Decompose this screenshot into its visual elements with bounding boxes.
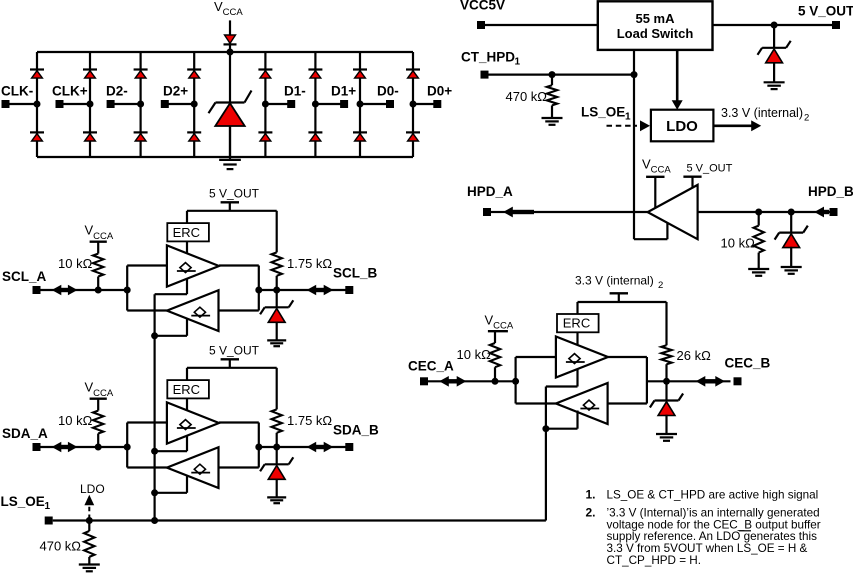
node CEC rail junction — [512, 378, 519, 385]
label HPD_B — [808, 184, 853, 199]
wire SCL_B net — [259, 289, 347, 291]
wire D0+ pin stub — [413, 103, 437, 105]
arrow SCL_A bidirectional — [52, 285, 78, 296]
wire ERC to buffer (SDA) — [186, 398, 188, 410]
svg-text:LS_OE: LS_OE — [581, 105, 625, 120]
label 5 V_OUT (SDA) — [209, 344, 260, 358]
pin LS_OE — [45, 517, 53, 525]
label 5 V_OUT (HPD) — [687, 163, 733, 175]
svg-text:1.75 kΩ: 1.75 kΩ — [287, 256, 332, 271]
supply bar V_CCA (CEC) — [488, 330, 508, 332]
label CEC_A — [408, 359, 454, 374]
ground (ESD array) — [219, 157, 241, 169]
svg-text:10 kΩ: 10 kΩ — [58, 413, 93, 428]
label 10 kOhm (HPD_B) — [721, 236, 756, 251]
diode D_CLK+_bot (ESD to ground rail) — [83, 132, 97, 141]
op-amp SCL A-to-B buffer — [167, 245, 219, 286]
label 5 V_OUT (SCL) — [209, 187, 260, 201]
arrow SDA_A bidirectional — [52, 442, 78, 453]
svg-text:5 V_OUT: 5 V_OUT — [687, 163, 733, 175]
block ERC (SCL) — [167, 223, 209, 241]
label D0- — [377, 84, 399, 99]
wire LDO output arrow 3.3V — [713, 120, 761, 131]
wire HPD_A lead — [491, 211, 506, 213]
wire SDA bottom buffer output — [127, 466, 167, 468]
svg-text:3.3 V (internal): 3.3 V (internal) — [721, 106, 803, 120]
diode D_D0-_bot (ESD to ground rail) — [353, 132, 367, 141]
label 3.3 V (internal)2 (LDO out) — [721, 106, 809, 124]
op-amp CEC A-to-B buffer — [556, 337, 608, 378]
node LS_OE LDO junction — [86, 517, 93, 524]
label V_CCA (SDA) — [85, 380, 114, 399]
pin SDA_A — [33, 443, 41, 451]
svg-text:1: 1 — [625, 112, 631, 123]
zener D_5VOUT clamp — [758, 41, 791, 63]
wire 5V_OUT zener stub — [773, 25, 775, 48]
diode D_D2-_bot (ESD to ground rail) — [134, 132, 148, 141]
svg-text:HPD_A: HPD_A — [467, 184, 513, 199]
svg-text:10 kΩ: 10 kΩ — [457, 347, 492, 362]
zener D_SDAB clamp — [260, 457, 293, 479]
svg-text:SCL_B: SCL_B — [333, 266, 378, 281]
label CT_HPD1 — [461, 50, 521, 68]
pin SDA_B — [345, 443, 353, 451]
label 10 kOhm (CEC) — [457, 347, 492, 362]
resistor R_CECA 10 kOhm — [490, 331, 500, 381]
pin CEC_A — [420, 377, 428, 385]
wire SDA bottom enable stub — [155, 475, 187, 493]
node D0- junction — [357, 101, 364, 108]
node D1+ junction — [312, 101, 319, 108]
svg-text:SDA_A: SDA_A — [2, 426, 48, 441]
svg-text:Load Switch: Load Switch — [617, 26, 694, 41]
zener D_SCLB clamp — [260, 300, 293, 322]
wire SCL bottom enable stub — [155, 318, 187, 336]
svg-text:CEC_A: CEC_A — [408, 359, 454, 374]
pin CEC_B — [734, 377, 742, 385]
wire HPD_B zener to ground — [790, 247, 792, 267]
svg-text:1.75 kΩ: 1.75 kΩ — [287, 413, 332, 428]
node D0+ junction — [410, 101, 417, 108]
diode D_D1-_bot (ESD to ground rail) — [258, 132, 272, 141]
label LDO (dashed arrow) — [80, 482, 105, 496]
wire center TVS column — [229, 52, 231, 157]
node load-switch enable junction — [631, 71, 638, 78]
wire 5 V_OUT supply stub (SCL) — [229, 202, 231, 211]
wire SDA_B net — [259, 446, 347, 448]
ground (CEC_B zener) — [656, 434, 677, 441]
node LS_OE enable junction — [151, 517, 158, 524]
svg-text:2.: 2. — [586, 506, 596, 520]
diode D_D1+_bot (ESD to ground rail) — [308, 132, 322, 141]
wire HPD enable L-path — [634, 223, 667, 239]
wire zener to ground — [773, 62, 775, 82]
wire ESD array top rail — [37, 51, 413, 53]
wire D2- pin stub — [111, 103, 141, 105]
wire ESD column D1- — [264, 52, 266, 157]
svg-text:5 V_OUT: 5 V_OUT — [209, 344, 260, 358]
label 470 kOhm (LS_OE) — [40, 539, 82, 554]
node D2+ junction — [191, 101, 198, 108]
svg-text:SCL_A: SCL_A — [2, 269, 47, 284]
zener D_CECB clamp — [650, 394, 683, 416]
resistor R_SCLA 10 kOhm — [93, 242, 103, 290]
op-amp U3 HPD buffer (points left) — [648, 185, 698, 239]
svg-text:LDO: LDO — [666, 118, 698, 135]
wire load switch bottom to HPD enable — [633, 50, 635, 239]
note 2 — [586, 506, 821, 567]
svg-text:CEC_B: CEC_B — [725, 356, 771, 371]
svg-text:10 kΩ: 10 kΩ — [58, 256, 93, 271]
pin D0- — [386, 100, 394, 108]
pin SCL_A — [33, 286, 41, 294]
svg-text:D2-: D2- — [106, 84, 128, 99]
svg-text:2: 2 — [804, 113, 809, 124]
node HPD_B 10k junction — [755, 209, 762, 216]
node SDA pull-up junction — [95, 444, 102, 451]
arrow SDA_B bidirectional — [307, 442, 334, 453]
resistor R_SDAA 10 kOhm — [93, 399, 103, 447]
resistor R_SCLB 1.75 k&#937; — [272, 252, 282, 290]
supply bar V_CCA (HPD) — [646, 176, 664, 178]
wire SCL left rail — [126, 266, 128, 311]
diode D_D2+_top (ESD to rail) — [187, 70, 201, 79]
resistor R_SDAB 1.75 k&#937; — [272, 409, 282, 447]
supply bar 5 V_OUT (SDA) — [221, 358, 239, 360]
wire SDA top enable stub — [155, 436, 187, 452]
node CT_HPD 470k junction — [549, 71, 556, 78]
label D1+ — [331, 84, 356, 99]
wire CEC top buffer output — [608, 356, 647, 358]
pin CLK- — [2, 100, 10, 108]
label HPD_A — [467, 184, 513, 199]
wire CEC top buffer input — [516, 356, 556, 358]
wire SDA_B zener stub — [276, 447, 278, 464]
op-amp SDA A-to-B buffer — [167, 402, 219, 443]
svg-text:2: 2 — [658, 280, 663, 291]
wire CEC enable line — [545, 387, 547, 521]
diode D_D2-_top (ESD to rail) — [134, 70, 148, 79]
label 26 kOhm — [677, 348, 712, 363]
label CLK+ — [52, 84, 88, 99]
resistor R_HPDB 10 kOhm — [754, 212, 764, 269]
wire SDA_A net — [41, 446, 128, 448]
wire D2+ pin stub — [165, 103, 194, 105]
TVS zener D_clamp (center) — [209, 91, 252, 158]
node SDA top enable junction — [151, 448, 158, 455]
wire CLK+ pin stub — [60, 103, 91, 105]
wire CEC left rail — [514, 357, 516, 404]
label V_CCA (array top) — [214, 0, 243, 18]
node D2- junction — [137, 101, 144, 108]
pin D1- — [287, 100, 295, 108]
svg-text:SDA_B: SDA_B — [333, 423, 379, 438]
wire V_CCA stub — [229, 20, 231, 52]
label 470 kOhm (CT_HPD) — [506, 89, 548, 104]
diode D_CLK-_top (ESD to rail) — [30, 70, 44, 79]
wire ERC supply stub (SDA) — [186, 368, 188, 380]
svg-text:CLK-: CLK- — [1, 84, 33, 99]
node D1- junction — [262, 101, 269, 108]
label 1.75 k&#937; (SCL) — [287, 256, 332, 271]
node CEC bottom enable junction — [542, 425, 549, 432]
label D0+ — [427, 84, 452, 99]
svg-text:D0-: D0- — [377, 84, 399, 99]
wire ERC to buffer (CEC) — [576, 332, 578, 345]
wire LS_OE net — [53, 519, 546, 521]
pin D2- — [107, 100, 115, 108]
wire V_CCA to HPD buffer — [654, 177, 656, 208]
supply bar V_CCA (SCL) — [90, 240, 107, 242]
op-amp CEC B-to-A buffer — [556, 383, 608, 424]
arrow HPD_A output (left) — [503, 207, 534, 218]
node CEC pull-up junction — [492, 378, 499, 385]
svg-text:ERC: ERC — [173, 225, 200, 240]
op-amp SDA B-to-A buffer — [167, 447, 219, 488]
zener D_HPDB clamp — [775, 226, 808, 248]
svg-text:ERC: ERC — [563, 316, 590, 331]
pin HPD_A — [483, 208, 491, 216]
supply bar 3.3V (CEC) — [610, 292, 628, 294]
svg-text:55 mA: 55 mA — [635, 11, 675, 26]
wire ESD column CLK+ — [89, 52, 91, 157]
svg-text:LS_OE & CT_HPD are active high: LS_OE & CT_HPD are active high signal — [607, 489, 819, 502]
node 5V_OUT zener junction — [771, 22, 778, 29]
ground (SCL_B zener) — [267, 340, 286, 346]
wire D1- pin stub — [265, 103, 291, 105]
wire SDA output rail — [258, 423, 260, 468]
wire CEC bottom buffer output — [516, 402, 556, 404]
label LS_OE1 (bottom) — [1, 494, 51, 512]
svg-text:1.: 1. — [586, 488, 596, 502]
label LS_OE1 (top) — [581, 105, 631, 123]
label 10 kOhm (SCL) — [58, 256, 93, 271]
diode D_D1-_top (ESD to rail) — [258, 70, 272, 79]
label V_CCA (CEC) — [485, 313, 514, 332]
label 10 kOhm (SDA) — [58, 413, 93, 428]
svg-text:5 V_OUT: 5 V_OUT — [209, 187, 260, 201]
block ERC (SDA) — [167, 380, 209, 398]
ground (SDA_B zener) — [267, 497, 286, 503]
label 5 V_OUT (pin) — [798, 4, 853, 19]
wire CLK- pin stub — [6, 103, 38, 105]
svg-text:CCA: CCA — [93, 388, 114, 399]
svg-text:CCA: CCA — [223, 7, 244, 18]
wire SCL supply rail — [187, 210, 277, 212]
label SDA_B — [333, 423, 379, 438]
label 1.75 k&#937; (SDA) — [287, 413, 332, 428]
diode D_D2+_bot (ESD to ground rail) — [187, 132, 201, 141]
svg-text:D1+: D1+ — [331, 84, 356, 99]
wire ERC supply stub (SCL) — [186, 211, 188, 223]
wire SCL_B zener to ground — [276, 322, 278, 341]
arrow SCL_B bidirectional — [307, 285, 334, 296]
diode D_CLK-_bot (ESD to ground rail) — [30, 132, 44, 141]
label VCC5V — [460, 0, 505, 13]
wire ERC supply stub (CEC) — [576, 302, 578, 314]
node SCL_B pull-up junction — [273, 287, 280, 294]
wire CEC_B zener to ground — [665, 415, 667, 434]
wire D1+ pin stub — [315, 103, 344, 105]
label 3.3 V (internal)2 (CEC) — [575, 274, 663, 292]
diode D_D0-_top (ESD to rail) — [353, 70, 367, 79]
wire LS_OE dashed enable arrow — [607, 120, 651, 131]
wire SCL output rail — [258, 266, 260, 311]
wire CEC_B zener stub — [665, 381, 667, 400]
svg-text:1: 1 — [515, 57, 521, 68]
node CEC_B pull-up junction — [663, 378, 670, 385]
svg-text:5 V_OUT: 5 V_OUT — [798, 4, 853, 19]
node SDA bottom enable junction — [151, 489, 158, 496]
wire HPD_B input — [698, 211, 830, 213]
svg-text:3.3 V (internal): 3.3 V (internal) — [575, 274, 654, 288]
label V_CCA (HPD) — [642, 157, 671, 176]
wire HPD buffer output — [532, 211, 648, 213]
ground (HPD_B resistor) — [748, 269, 769, 276]
ground (5V_OUT zener) — [764, 82, 785, 89]
wire ESD array bottom rail — [37, 156, 413, 158]
node SCL pull-up junction — [95, 287, 102, 294]
node CLK- junction — [34, 101, 41, 108]
pin HPD_B — [830, 208, 838, 216]
svg-text:CT_CP_HPD = H.: CT_CP_HPD = H. — [607, 554, 702, 567]
wire SCL top buffer output — [219, 264, 259, 266]
label CLK- — [1, 84, 33, 99]
svg-text:ERC: ERC — [173, 382, 200, 397]
wire SCL/SDA enable line — [154, 294, 156, 520]
svg-text:CCA: CCA — [651, 165, 672, 176]
supply bar 5 V_OUT (SCL) — [221, 201, 239, 203]
note 1 — [586, 488, 819, 502]
block U1 55 mA Load Switch — [598, 1, 713, 50]
wire SDA bottom buffer input — [219, 466, 259, 468]
svg-text:26 kΩ: 26 kΩ — [677, 348, 712, 363]
svg-text:CLK+: CLK+ — [52, 84, 88, 99]
wire CEC_A net — [428, 380, 516, 382]
wire ESD column D2- — [140, 52, 142, 157]
svg-text:LS_OE: LS_OE — [1, 494, 45, 509]
wire CEC pull-up rail — [665, 302, 667, 345]
wire D0- pin stub — [360, 103, 390, 105]
pin 5 V_OUT — [832, 21, 840, 29]
wire SDA pull-up rail — [276, 368, 278, 410]
wire ESD column D0+ — [412, 52, 414, 157]
op-amp SCL B-to-A buffer — [167, 290, 219, 331]
svg-text:10 kΩ: 10 kΩ — [721, 236, 756, 251]
wire CEC output rail — [646, 357, 648, 404]
resistor R_CTHPD 470 kOhm — [547, 75, 557, 118]
wire VCC5V to load switch — [485, 24, 598, 26]
wire load switch output to 5 V_OUT — [713, 24, 833, 26]
supply bar V_CCA (SDA) — [90, 398, 107, 400]
svg-text:CCA: CCA — [93, 231, 114, 242]
wire SCL top buffer input — [127, 264, 167, 266]
label CEC_B — [725, 356, 771, 371]
wire SCL_A net — [41, 289, 128, 291]
ground (HPD_B zener) — [781, 267, 802, 274]
wire 5 V_OUT supply stub (SDA) — [229, 359, 231, 368]
wire SDA top buffer input — [127, 421, 167, 423]
wire 3.3V supply stub (CEC) — [618, 293, 620, 302]
wire SCL pull-up rail — [276, 211, 278, 253]
ground (CT_HPD pulldown) — [542, 118, 563, 125]
node SDA_B output junction — [255, 444, 262, 451]
wire ESD column D0- — [359, 52, 361, 157]
arrow CEC_B bidirectional — [696, 376, 725, 387]
label SDA_A — [2, 426, 48, 441]
wire CT_HPD to enable line — [489, 73, 635, 75]
node V_CCA feed junction — [227, 49, 234, 56]
wire ESD column D1+ — [314, 52, 316, 157]
block U2 LDO — [651, 110, 714, 142]
label V_CCA (SCL) — [85, 223, 114, 242]
resistor R_LSOE 470 kOhm — [84, 521, 94, 565]
svg-text:LDO: LDO — [80, 482, 105, 496]
pin CLK+ — [56, 100, 64, 108]
node HPD_B zener junction — [788, 209, 795, 216]
label SCL_B — [333, 266, 378, 281]
label D1- — [284, 84, 306, 99]
node SCL_B output junction — [255, 287, 262, 294]
svg-text:D2+: D2+ — [163, 84, 188, 99]
wire SDA top buffer output — [219, 421, 259, 423]
supply bar 5 V_OUT (HPD) — [683, 175, 701, 177]
svg-text:D0+: D0+ — [427, 84, 452, 99]
wire SDA left rail — [126, 423, 128, 468]
pin D0+ — [433, 100, 441, 108]
svg-text:VCC5V: VCC5V — [460, 0, 505, 13]
wire CEC bottom enable stub — [546, 411, 578, 429]
svg-text:D1-: D1- — [284, 84, 306, 99]
svg-text:HPD_B: HPD_B — [808, 184, 853, 199]
wire CEC top enable stub — [546, 369, 578, 387]
svg-text:CT_HPD: CT_HPD — [461, 50, 515, 65]
node SDA_B pull-up junction — [273, 444, 280, 451]
pin CT_HPD — [481, 71, 489, 79]
svg-text:470 kΩ: 470 kΩ — [40, 539, 82, 554]
wire SCL_B zener stub — [276, 290, 278, 307]
pin SCL_B — [345, 286, 353, 294]
diode D_D0+_bot (ESD to ground rail) — [406, 132, 420, 141]
wire ESD column CLK- — [36, 52, 38, 157]
arrow CEC_A bidirectional — [439, 376, 466, 387]
pin D1+ — [340, 100, 348, 108]
arrow HPD_B input (left) — [814, 207, 829, 218]
svg-text:470 kΩ: 470 kΩ — [506, 89, 548, 104]
wire ERC to buffer (SCL) — [186, 241, 188, 253]
node SCL bottom enable junction — [151, 332, 158, 339]
resistor R_CECB 26 kOhm — [661, 345, 671, 381]
diode D_CLK+_top (ESD to rail) — [83, 70, 97, 79]
wire SCL top enable stub — [155, 279, 187, 295]
wire SCL bottom buffer output — [127, 309, 167, 311]
wire CEC bottom buffer input — [608, 402, 647, 404]
wire CEC_B net — [647, 380, 731, 382]
node CLK+ junction — [87, 101, 94, 108]
wire 5V_OUT to HPD buffer — [691, 177, 693, 189]
wire SDA supply rail — [187, 367, 277, 369]
arrow LS_OE to LDO (dashed up) — [84, 495, 94, 519]
label SCL_A — [2, 269, 47, 284]
wire load switch to LDO arrow — [672, 50, 683, 110]
node SDA rail junction — [124, 444, 131, 451]
wire ESD column D2+ — [193, 52, 195, 157]
pin D2+ — [161, 100, 169, 108]
pin VCC5V — [477, 21, 485, 29]
diode D_D0+_top (ESD to rail) — [406, 70, 420, 79]
node SCL rail junction — [124, 287, 131, 294]
label D2- — [106, 84, 128, 99]
